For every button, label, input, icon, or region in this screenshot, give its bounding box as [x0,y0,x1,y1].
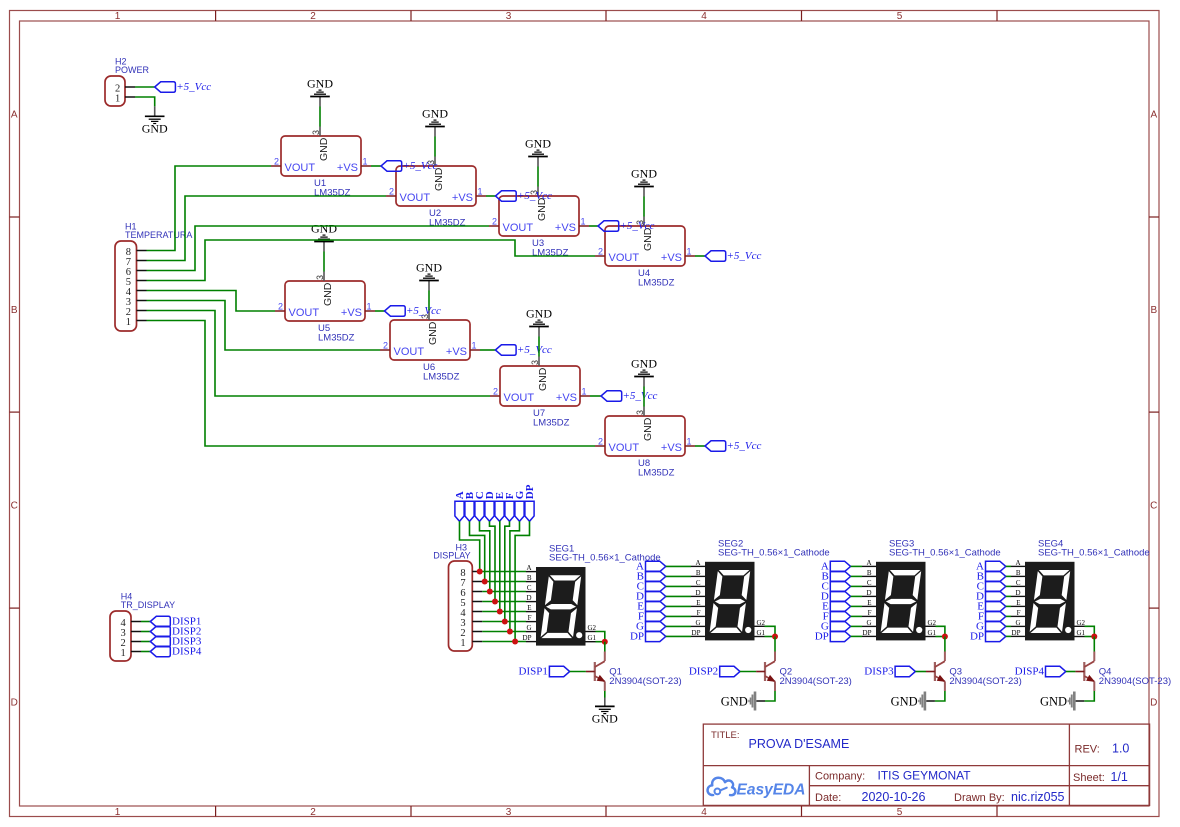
svg-text:GND: GND [525,137,551,151]
net flag A above display bus [454,491,466,521]
wire H1 pin8 to U1 VOUT [147,166,272,251]
wire DISP2 to Q2 base [740,671,756,673]
wire net F to H3 pin 3 [505,521,510,621]
svg-text:GND: GND [642,417,654,441]
wire DISP1 to Q1 base [570,671,586,673]
wire U3 pin1 to +5_Vcc flag [589,225,598,227]
wire Q4 collector from junction [1093,637,1095,652]
junction net G [507,629,513,635]
SEG4 pin G stub [1011,625,1025,627]
power flag +5_Vcc at U3 [598,220,655,232]
U6 pin 3 stub [428,311,430,321]
svg-text:+5_Vcc: +5_Vcc [727,250,762,262]
svg-text:+VS: +VS [556,392,577,404]
SEG3 pin B stub [862,575,876,577]
svg-text:GND: GND [526,307,552,321]
SEG3 pin E stub [862,605,876,607]
H4 pin 1 stub [131,651,141,653]
svg-text:DP: DP [970,631,984,643]
SEG3 pin D stub [862,595,876,597]
SEG2 pin G stub [691,625,705,627]
SEG2 pin D stub [691,595,705,597]
svg-text:2: 2 [310,807,316,818]
svg-text:1: 1 [460,638,465,649]
SEG4 pin D stub [1011,595,1025,597]
U7 GND symbol stem [538,327,540,337]
junction net B [482,579,488,585]
svg-text:D: D [1150,698,1157,709]
wire U7 pin1 to +5_Vcc flag [590,395,601,397]
sensor U1 LM35DZ [274,130,368,199]
wire net DP to SEG3 pin DP [851,635,862,637]
H4 pin 3 stub [131,631,141,633]
ground GND above U4 [631,167,657,187]
ground GND below H2 [142,116,168,135]
H1 pin 5 stub [137,280,147,282]
SEG3 pin G2 stub [926,625,936,627]
svg-text:ITIS GEYMONAT: ITIS GEYMONAT [878,769,972,783]
wire net G to SEG2 pin G [666,625,691,627]
svg-text:GND: GND [416,261,442,275]
wire SEG Q4 G2 net [1085,626,1095,636]
U1 pin 2 stub [271,165,281,167]
svg-text:VOUT: VOUT [503,222,534,234]
net flag F at SEG2 [638,611,666,623]
svg-text:GND: GND [631,357,657,371]
svg-text:TEMPERATURA: TEMPERATURA [125,230,192,240]
wire U6 pin1 to +5_Vcc flag [480,349,495,351]
net flag D above display bus [484,491,496,521]
wire U8 pin1 to +5_Vcc flag [695,445,705,447]
title block [703,724,1149,805]
transistor Q1 2N3904(SOT-23) [586,652,606,692]
svg-text:GND: GND [1040,695,1067,709]
ground GND below Q1 [592,706,618,725]
svg-text:+VS: +VS [661,252,682,264]
net flag DP above display bus [524,484,536,521]
svg-text:LM35DZ: LM35DZ [423,372,460,383]
net flag D at SEG3 [821,591,851,603]
sensor U7 LM35DZ [493,360,587,429]
sensor U4 LM35DZ [598,220,692,289]
svg-text:EasyEDA: EasyEDA [737,782,806,799]
net flag DISP1 at H4 [150,616,201,628]
wire net B to SEG3 pin B [851,575,862,577]
net flag DP at SEG2 [630,631,666,643]
svg-text:TR_DISPLAY: TR_DISPLAY [121,600,175,610]
svg-text:LM35DZ: LM35DZ [532,248,569,259]
svg-text:2: 2 [383,341,388,351]
svg-text:5: 5 [897,807,903,818]
SEG2 pin E stub [691,605,705,607]
wire SEG Q3 G1 net [936,636,945,638]
SEG2 pin B stub [691,575,705,577]
U3 GND symbol stem [537,157,539,167]
U7 pin 3 stub [538,357,540,367]
H3 pin 7 stub [472,581,482,583]
U2 pin 1 stub [476,195,486,197]
wire U7 pin3 to GND [538,337,540,357]
ground GND at Q4 [1040,692,1076,711]
svg-text:4: 4 [701,11,707,22]
net flag D at SEG2 [636,591,666,603]
sensor U5 LM35DZ [278,275,372,344]
SEG1 pin G2 stub [586,631,596,633]
power flag +5_Vcc at U6 [495,344,552,356]
junction net E [497,609,503,615]
H1 pin 7 stub [137,260,147,262]
Q3 GND symbol stem [926,700,935,702]
net flag DP at SEG4 [970,631,1006,643]
SEG3 pin C stub [862,585,876,587]
U2 pin 2 stub [386,195,396,197]
svg-text:C: C [11,501,18,512]
svg-text:DISP2: DISP2 [689,665,718,677]
svg-text:+5_Vcc: +5_Vcc [406,305,441,317]
U4 pin 1 stub [685,255,695,257]
svg-text:GND: GND [307,77,333,91]
wire U4 pin1 to +5_Vcc flag [695,255,705,257]
U8 pin 2 stub [595,445,605,447]
SEG3 pin F stub [862,615,876,617]
svg-text:DISPLAY: DISPLAY [433,551,470,561]
U5 pin 3 stub [323,272,325,282]
wire net A to H3 pin 8 [460,521,480,571]
svg-text:2N3904(SOT-23): 2N3904(SOT-23) [1099,676,1171,687]
wire net D to H3 pin 5 [490,521,496,601]
wire net D to SEG3 pin D [851,595,862,597]
wire H3 pin 4 to SEG1 E [482,611,526,613]
net flag E at SEG2 [637,601,666,613]
SEG1 pin C stub [526,591,536,593]
svg-text:1: 1 [126,317,131,328]
net flag DP at SEG3 [815,631,851,643]
SEG4 pin DP stub [1011,635,1025,637]
svg-text:GND: GND [422,107,448,121]
svg-text:+VS: +VS [341,307,362,319]
wire H1 pin2 to U7 VOUT [147,311,491,397]
svg-text:1.0: 1.0 [1112,742,1129,756]
display SEG1 SEG-TH_0.56x1_Cathode [523,564,597,646]
SEG3 pin DP stub [862,635,876,637]
svg-text:DP: DP [630,631,644,643]
H3 pin 6 stub [472,591,482,593]
svg-text:GND: GND [721,695,748,709]
svg-text:+5_Vcc: +5_Vcc [403,160,438,172]
svg-text:1: 1 [363,157,368,167]
net flag D at SEG4 [976,591,1006,603]
junction net A [477,569,483,575]
svg-text:PROVA D'ESAME: PROVA D'ESAME [749,737,850,751]
svg-text:4: 4 [701,807,707,818]
net flag C above display bus [474,491,486,521]
svg-text:+VS: +VS [555,222,576,234]
wire net G to SEG4 pin G [1006,625,1011,627]
SEG1 pin G stub [526,631,536,633]
svg-text:VOUT: VOUT [609,442,640,454]
net flag E at SEG3 [822,601,851,613]
SEG4 pin G1 stub [1075,636,1085,638]
SEG3 pin G1 stub [926,636,936,638]
wire H1 pin4 to U5 VOUT [147,291,276,312]
svg-text:GND: GND [537,367,549,391]
wire net B to SEG4 pin B [1006,575,1011,577]
svg-text:TITLE:: TITLE: [711,730,740,741]
junction Q3 collector node [942,634,948,640]
U5 pin 2 stub [275,310,285,312]
H2 pin 2 stub [125,86,135,88]
sensor U8 LM35DZ [598,410,692,479]
power flag +5_Vcc at U5 [385,305,442,317]
svg-text:SEG-TH_0.56×1_Cathode: SEG-TH_0.56×1_Cathode [889,548,1001,559]
U5 pin 1 stub [365,310,375,312]
Q2 GND symbol stem [756,700,765,702]
net flag DISP1 at Q1 base [519,665,570,677]
ground GND at Q3 [891,692,927,711]
wire Q1 collector from junction [604,642,606,652]
power flag +5_Vcc at U4 [705,250,762,262]
wire U2 pin3 to GND [434,137,436,157]
junction Q1 collector node [602,639,608,645]
wire DISP4 to Q4 base [1066,671,1076,673]
junction net D [492,599,498,605]
wire net A to SEG3 pin A [851,565,862,567]
wire H3 pin 2 to SEG1 G [482,631,526,633]
wire SEG Q2 G1 net [765,636,776,638]
svg-text:C: C [1150,501,1157,512]
wire net DP to SEG4 pin DP [1006,635,1011,637]
wire U3 pin3 to GND [537,167,539,187]
wire net C to SEG4 pin C [1006,585,1011,587]
wire Q3 emitter to GND [935,691,945,701]
svg-text:SEG-TH_0.56×1_Cathode: SEG-TH_0.56×1_Cathode [1038,548,1150,559]
net flag C at SEG2 [637,581,666,593]
ground GND above U2 [422,107,448,127]
U3 pin 2 stub [489,225,499,227]
svg-text:+5_Vcc: +5_Vcc [517,344,552,356]
svg-text:3: 3 [506,807,512,818]
wire U1 pin3 to GND [319,107,321,127]
svg-text:POWER: POWER [115,65,150,75]
SEG1 pin DP stub [526,641,536,643]
net flag B at SEG4 [977,571,1006,583]
wire U2 pin1 to +5_Vcc flag [486,195,496,197]
SEG4 pin A stub [1011,565,1025,567]
wire H3 pin 8 to SEG1 A [482,571,526,573]
H3 pin 2 stub [472,631,482,633]
wire SEG Q1 G1 net [596,641,605,643]
svg-text:DISP4: DISP4 [1015,665,1045,677]
U7 pin 1 stub [580,395,590,397]
net flag C at SEG4 [977,581,1006,593]
power flag +5_Vcc at U8 [705,440,762,452]
connector H1 TEMPERATURA [115,241,137,331]
H2 pin 1 stub [125,96,135,98]
SEG1 pin D stub [526,601,536,603]
svg-text:REV:: REV: [1075,744,1100,756]
svg-text:A: A [11,110,18,121]
ground GND above U7 [526,307,552,327]
svg-text:LM35DZ: LM35DZ [638,278,675,289]
wire Q2 emitter to GND [765,691,775,701]
svg-text:VOUT: VOUT [394,346,425,358]
SEG3 pin G stub [862,625,876,627]
wire H3 pin 1 to SEG1 DP [482,641,526,643]
svg-text:LM35DZ: LM35DZ [638,468,675,479]
SEG4 pin B stub [1011,575,1025,577]
connector H3 DISPLAY [449,561,473,651]
U3 pin 3 stub [537,187,539,197]
H1 pin 3 stub [137,300,147,302]
SEG3 pin A stub [862,565,876,567]
svg-text:+5_Vcc: +5_Vcc [727,440,762,452]
net flag B above display bus [464,491,476,521]
svg-text:GND: GND [592,712,618,726]
wire H4 pin 3 to DISP2 flag [141,631,150,633]
net flag E above display bus [494,492,506,521]
SEG1 pin B stub [526,581,536,583]
svg-text:1: 1 [115,807,121,818]
H3 pin 5 stub [472,601,482,603]
wire H3 pin 7 to SEG1 B [482,581,526,583]
H3 pin 3 stub [472,621,482,623]
svg-text:+5_Vcc: +5_Vcc [517,190,552,202]
SEG4 pin F stub [1011,615,1025,617]
svg-text:VOUT: VOUT [504,392,535,404]
svg-text:+VS: +VS [337,162,358,174]
net flag DISP2 at Q2 base [689,665,740,677]
sensor U3 LM35DZ [492,190,586,259]
junction Q2 collector node [772,634,778,640]
U5 GND symbol stem [323,242,325,252]
wire U8 pin3 to GND [643,387,645,407]
net flag E at SEG4 [977,601,1006,613]
svg-text:+VS: +VS [661,442,682,454]
H4 pin 2 stub [131,641,141,643]
H1 pin 4 stub [137,290,147,292]
wire net C to H3 pin 6 [480,521,490,591]
svg-text:2N3904(SOT-23): 2N3904(SOT-23) [609,676,681,687]
svg-text:Sheet:: Sheet: [1073,772,1105,784]
wire SEG Q4 G1 net [1085,636,1095,638]
net flag A at SEG4 [976,561,1006,573]
wire H1 pin1 to U8 VOUT [147,321,596,447]
wire net D to SEG4 pin D [1006,595,1011,597]
wire Q4 emitter to GND [1084,691,1094,701]
svg-text:LM35DZ: LM35DZ [318,333,355,344]
wire H1 pin3 to U6 VOUT [147,301,381,351]
wire H2 pin1 to GND [135,97,155,106]
svg-text:LM35DZ: LM35DZ [429,218,466,229]
svg-text:2: 2 [493,387,498,397]
U4 GND symbol stem [643,187,645,197]
wire net A to SEG2 pin A [666,565,691,567]
svg-text:1: 1 [687,437,692,447]
net flag G above display bus [514,490,526,521]
svg-text:VOUT: VOUT [289,307,320,319]
svg-text:1: 1 [472,341,477,351]
SEG2 pin F stub [691,615,705,617]
net flag A at SEG2 [636,561,666,573]
U8 GND symbol stem [643,377,645,387]
svg-text:SEG-TH_0.56×1_Cathode: SEG-TH_0.56×1_Cathode [718,548,830,559]
U4 pin 2 stub [595,255,605,257]
wire U4 pin3 to GND [643,197,645,217]
net flag C at SEG3 [821,581,850,593]
svg-text:2: 2 [278,302,283,312]
ground GND above U8 [631,357,657,377]
svg-text:+VS: +VS [452,192,473,204]
SEG2 pin A stub [691,565,705,567]
svg-text:1: 1 [687,247,692,257]
wire H1 pin7 to U2 VOUT [147,196,387,261]
wire DISP3 to Q3 base [915,671,926,673]
wire H4 pin 1 to DISP4 flag [141,651,150,653]
net flag F at SEG4 [978,611,1006,623]
wire U6 pin3 to GND [428,291,430,311]
wire Q3 collector from junction [944,637,946,652]
wire net E to SEG3 pin E [851,605,862,607]
junction Q4 collector node [1091,634,1097,640]
svg-text:2020-10-26: 2020-10-26 [862,790,926,804]
wire SEG Q3 G2 net [936,626,945,636]
svg-text:VOUT: VOUT [609,252,640,264]
svg-text:1/1: 1/1 [1111,770,1128,784]
net flag F at SEG3 [823,611,851,623]
wire H3 pin 3 to SEG1 F [482,621,526,623]
connector H4 TR_DISPLAY [110,611,131,661]
SEG1 pin E stub [526,611,536,613]
SEG1 pin G1 stub [586,641,596,643]
wire U5 pin1 to +5_Vcc flag [375,310,385,312]
wire H3 pin 5 to SEG1 D [482,601,526,603]
SEG4 pin E stub [1011,605,1025,607]
svg-text:1: 1 [478,187,483,197]
net flag B at SEG3 [821,571,850,583]
wire H1 pin6 to U3 VOUT [147,226,490,271]
display SEG4 SEG-TH_0.56x1_Cathode [1012,559,1086,640]
net flag G at SEG2 [636,621,666,633]
net flag B at SEG2 [637,571,666,583]
wire H1 pin5 to U4 VOUT [147,240,596,281]
wire SEG Q1 G2 net [596,632,605,642]
svg-text:DISP4: DISP4 [172,646,202,658]
svg-text:Company:: Company: [815,771,865,783]
SEG1 pin F stub [526,621,536,623]
net flag A at SEG3 [821,561,851,573]
sensor U6 LM35DZ [383,314,477,383]
svg-text:2: 2 [492,217,497,227]
net flag DISP3 at Q3 base [864,665,915,677]
H3 pin 8 stub [472,571,482,573]
SEG2 pin C stub [691,585,705,587]
wire net E to SEG2 pin E [666,605,691,607]
svg-text:GND: GND [631,167,657,181]
ground GND above U6 [416,261,442,281]
svg-text:Drawn By:: Drawn By: [954,792,1005,804]
svg-text:1: 1 [115,11,121,22]
net flag G at SEG4 [976,621,1006,633]
svg-text:2: 2 [389,187,394,197]
wire net D to SEG2 pin D [666,595,691,597]
svg-text:3: 3 [506,11,512,22]
U7 pin 2 stub [490,395,500,397]
power flag +5_Vcc at U2 [496,190,553,202]
junction net F [502,619,508,625]
power flag +5_Vcc at U7 [601,390,658,402]
svg-text:+5_Vcc: +5_Vcc [620,220,655,232]
wire Q2 collector from junction [774,637,776,652]
